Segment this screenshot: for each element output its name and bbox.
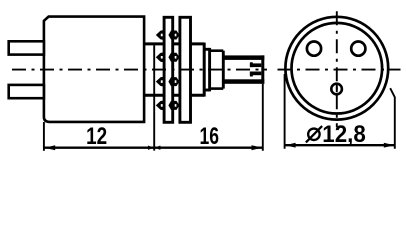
center line (side view) (12, 69, 267, 71)
tube top wall (223, 55, 264, 60)
bushing neck bottom edge (144, 94, 204, 97)
center line (end view horizontal) (278, 69, 401, 71)
crimp mark row 1 (156, 30, 180, 40)
body (case, side view) (44, 17, 144, 122)
svg-text:16: 16 (199, 123, 219, 150)
collar second step face (208, 48, 211, 92)
center line (end view vertical) (336, 11, 338, 127)
diameter symbol (308, 129, 320, 141)
arrow right end (252, 145, 263, 150)
pin hole bottom (331, 84, 342, 95)
svg-text:12,8: 12,8 (322, 121, 366, 148)
diameter extension line right (390, 88, 395, 149)
terminal cylinder bottom edge (210, 87, 224, 90)
diameter dimension line (285, 144, 395, 146)
svg-text:12: 12 (86, 123, 107, 150)
extension line middle (153, 45, 155, 150)
extension line right (262, 84, 264, 151)
pin hole top right (351, 42, 365, 56)
collar shoulder face (203, 43, 206, 97)
lead 1 (top left pin) (9, 41, 44, 54)
center line tick inside bottom pin hole (336, 84, 338, 92)
pin hole top left (307, 42, 321, 56)
inner circle (end view) (292, 23, 383, 114)
outer circle (end view) (285, 17, 388, 120)
diameter extension line left (284, 74, 286, 149)
arrow left end (45, 145, 56, 150)
tube end face (261, 55, 264, 83)
crimp mark row 3 (156, 77, 180, 87)
diameter arrow right (384, 143, 395, 148)
dimension line 12 and 16 (44, 147, 263, 149)
bushing neck top edge (144, 42, 204, 45)
collar second step bottom edge (204, 89, 209, 92)
arrow middle pair (148, 146, 154, 150)
lead 2 (bottom left pin) (9, 85, 44, 98)
tube bottom wall (223, 79, 264, 84)
diameter arrow left (285, 143, 296, 148)
terminal cylinder face (222, 51, 225, 89)
extension line left (43, 122, 45, 151)
crimp mark row 2 (156, 52, 180, 62)
terminal cylinder top edge (210, 49, 224, 52)
washer B (180, 17, 191, 122)
crimp mark row 4 (156, 100, 180, 110)
collar second step top edge (204, 48, 209, 51)
slot lower lip (250, 72, 261, 76)
washer A (164, 17, 173, 122)
slot upper lip (250, 63, 261, 67)
